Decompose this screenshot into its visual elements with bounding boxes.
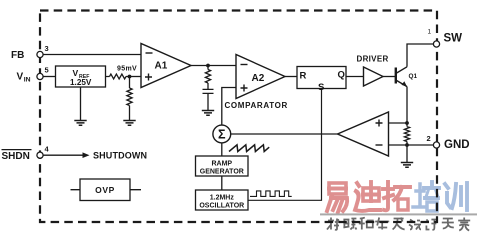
wire summer to ramp generator — [221, 143, 223, 156]
resistor divider to ground — [127, 77, 132, 121]
svg-text:S: S — [318, 82, 324, 93]
driver buffer — [357, 55, 389, 87]
oscillator box 1.2MHz — [196, 190, 249, 210]
svg-text:Q1: Q1 — [409, 73, 418, 80]
svg-text:3: 3 — [45, 44, 49, 53]
compensation resistor — [205, 66, 210, 84]
wire Q1 collector to SW pin — [407, 44, 433, 67]
svg-text:SHUTDOWN: SHUTDOWN — [93, 151, 147, 161]
svg-text:OVP: OVP — [95, 185, 115, 195]
wire driver to Q1 base — [383, 76, 396, 78]
watermark logo "yi di tuo pei xun" — [320, 182, 477, 231]
node junction at A1 plus input — [128, 75, 132, 79]
transistor Q1 NPN — [396, 67, 418, 87]
summing node sigma — [213, 125, 231, 143]
svg-text:A2: A2 — [252, 73, 265, 84]
compensation capacitor — [203, 83, 214, 110]
wire VIN to VREF box — [43, 76, 55, 78]
sense resistor — [404, 123, 409, 145]
wire to GND pin — [407, 144, 433, 146]
svg-text:R: R — [300, 71, 307, 82]
OVP box — [71, 179, 142, 201]
pin GND (2) — [427, 134, 470, 151]
ground near GND pin — [401, 163, 413, 168]
svg-text:GND: GND — [444, 139, 470, 151]
wire VREF to ground — [80, 88, 82, 121]
wire sense amp output to summer — [231, 133, 338, 135]
svg-text:2: 2 — [427, 134, 431, 143]
svg-text:RAMP: RAMP — [211, 160, 232, 167]
svg-text:GENERATOR: GENERATOR — [200, 168, 244, 175]
RS latch — [297, 67, 346, 94]
svg-text:A1: A1 — [155, 61, 168, 72]
pin VIN (5) — [17, 66, 49, 84]
node at A1 output — [206, 64, 210, 68]
svg-text:95mV: 95mV — [117, 65, 137, 72]
current sense amplifier — [338, 112, 389, 156]
sawtooth waveform glyph — [229, 145, 269, 152]
IC boundary dashed box — [40, 11, 437, 223]
wire Q1 emitter to sense node — [406, 87, 408, 123]
ground under compensation — [202, 111, 214, 116]
svg-text:SHDN: SHDN — [2, 151, 30, 162]
wire ramp generator to oscillator — [221, 176, 223, 190]
wire A2 plus input down to summer — [222, 88, 236, 126]
pin FB (3) — [11, 44, 49, 61]
wire node to A1 plus — [128, 76, 142, 78]
wire SHDN with arrow to SHUTDOWN — [43, 151, 147, 161]
op-amp A2 PWM comparator — [236, 55, 285, 99]
wire to ground symbol — [406, 145, 408, 162]
square wave glyph — [250, 191, 292, 197]
ground under VREF — [74, 121, 86, 126]
pin SW — [433, 33, 462, 48]
svg-text:1.25V: 1.25V — [70, 78, 92, 87]
ramp generator box — [196, 156, 249, 176]
svg-text:Q: Q — [338, 70, 345, 81]
svg-text:1.2MHz: 1.2MHz — [210, 194, 235, 201]
wire sense amp plus input — [389, 122, 408, 124]
svg-text:IN: IN — [24, 77, 31, 84]
voltage reference box VREF 1.25V — [56, 66, 106, 87]
wire oscillator to latch S input — [248, 89, 322, 201]
op-amp A1 error amplifier — [141, 44, 191, 88]
svg-text:COMPARATOR: COMPARATOR — [225, 101, 288, 110]
node at sense resistor bottom — [405, 143, 409, 147]
svg-text:V: V — [73, 68, 79, 78]
wire A1 output to A2 minus — [191, 65, 236, 67]
svg-text:SW: SW — [444, 33, 463, 45]
svg-text:DRIVER: DRIVER — [357, 55, 389, 64]
svg-text:OSCILLATOR: OSCILLATOR — [199, 202, 244, 209]
svg-text:FB: FB — [11, 50, 24, 61]
wire A2 output to latch R — [285, 76, 297, 78]
svg-text:1: 1 — [428, 29, 432, 36]
resistor 95mV offset — [106, 65, 138, 79]
ground under divider resistor — [123, 121, 135, 126]
svg-text:Σ: Σ — [218, 128, 226, 142]
wire latch Q to driver — [346, 76, 364, 78]
svg-text:V: V — [17, 72, 24, 83]
node at sense resistor top — [405, 121, 409, 125]
pin SHDN (4) with overline — [2, 145, 50, 163]
wire sense amp minus input — [389, 144, 408, 146]
wire FB to A1 minus — [43, 54, 141, 56]
svg-text:5: 5 — [45, 66, 49, 75]
